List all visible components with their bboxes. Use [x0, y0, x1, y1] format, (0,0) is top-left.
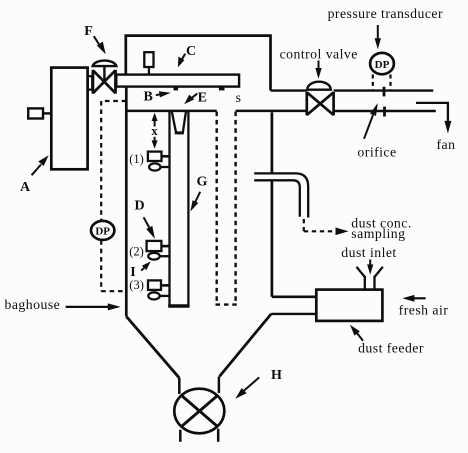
rotary valve H neck right: [218, 376, 221, 393]
valve F stem: [103, 66, 105, 82]
valve F dome: [93, 61, 117, 67]
arrow C: [182, 54, 186, 60]
tube sheet right segment to control valve: [236, 110, 307, 113]
svg-text:D: D: [134, 199, 144, 214]
box A (air supply): [51, 68, 87, 170]
orifice tick upper: [383, 87, 386, 97]
svg-text:E: E: [198, 91, 207, 106]
valve outlet right: [217, 429, 220, 442]
venturi nozzle E inside bag top: [172, 112, 176, 132]
svg-text:G: G: [197, 175, 208, 190]
DP circle (baghouse): [91, 221, 114, 240]
valve outlet left: [179, 430, 182, 442]
dust inlet funnel: [357, 267, 383, 290]
svg-text:DP: DP: [95, 226, 110, 238]
svg-text:control valve: control valve: [280, 46, 358, 61]
upper pipe: control valve to open end: [334, 89, 434, 91]
upper pipe: duct to control valve: [271, 89, 307, 91]
baghouse left wall: [125, 87, 128, 317]
svg-text:F: F: [84, 24, 93, 39]
sampling bent tube white interior: [254, 173, 308, 217]
baghouse right wall: [271, 112, 274, 297]
arrow orifice: [364, 115, 373, 139]
small box on left of A: [28, 108, 43, 118]
tube sheet left segment: [125, 110, 217, 113]
DP circle (pressure transducer): [370, 53, 394, 74]
sensor stem: [148, 67, 150, 75]
rotary valve H neck left: [178, 378, 181, 394]
arrow I: [141, 268, 144, 271]
left DP dashed circuit: [101, 101, 126, 291]
rotary valve X: [182, 396, 218, 427]
bag G bottom: [168, 304, 189, 308]
svg-text:DP: DP: [375, 59, 390, 71]
x dimension arrow lower: [154, 137, 156, 144]
probe 3 ellipse: [148, 292, 159, 299]
tap mark s on pipe bottom: [219, 87, 225, 91]
rotary valve H circle: [174, 389, 224, 434]
arrow E: [192, 94, 198, 98]
lower pipe: control valve to open end: [334, 110, 436, 112]
pipe from valve F (horizontal bar): [116, 75, 239, 87]
arrow B: [156, 93, 160, 96]
feeder upper pipe: [272, 295, 316, 298]
svg-text:(1): (1): [129, 152, 144, 166]
bag G right wall: [187, 111, 189, 306]
stem small box to A: [43, 112, 51, 114]
svg-text:pressure transducer: pressure transducer: [328, 6, 443, 21]
control valve dome: [307, 82, 331, 90]
top duct (clean gas duct): [126, 36, 271, 91]
x dimension arrow upper: [154, 117, 156, 127]
arrow control valve: [318, 61, 320, 71]
arrow H: [244, 377, 259, 390]
probe 1 box: [148, 152, 162, 161]
sensor C box on pipe: [144, 52, 153, 67]
svg-text:dust feeder: dust feeder: [358, 340, 424, 355]
svg-text:fresh air: fresh air: [399, 303, 449, 318]
svg-text:(3): (3): [129, 278, 144, 292]
svg-text:baghouse: baghouse: [5, 297, 61, 312]
cone left: [126, 316, 179, 378]
svg-text:s: s: [236, 90, 242, 105]
dashed arrow to dust conc. sampling: [304, 219, 336, 231]
svg-text:H: H: [271, 368, 282, 383]
svg-text:(2): (2): [129, 244, 144, 258]
probe 2 ellipse: [148, 253, 159, 260]
svg-text:sampling: sampling: [351, 226, 405, 241]
svg-text:A: A: [20, 180, 31, 195]
arrow dust inlet: [369, 260, 371, 267]
arrow dust feeder: [357, 333, 364, 341]
fan arrowhead: [444, 121, 451, 134]
svg-text:fan: fan: [437, 137, 456, 152]
DP transducer dashed leads: [373, 75, 391, 91]
dust feeder box: [316, 290, 382, 321]
sampling bent tube inner edge: [254, 180, 300, 217]
probe 1 ellipse: [149, 163, 160, 170]
cone right: [220, 314, 272, 377]
arrow D: [144, 217, 150, 227]
arrow fresh air: [413, 297, 426, 299]
arrow baghouse: [66, 306, 109, 308]
fan suction line: [416, 103, 448, 124]
arrow pressure transducer: [377, 25, 379, 40]
dashed sampling tube s (U shape): [216, 112, 237, 305]
svg-text:dust inlet: dust inlet: [341, 245, 396, 260]
orifice tick lower: [383, 107, 386, 117]
tap mark B on pipe bottom: [174, 87, 179, 91]
flange between A and valve F: [88, 76, 93, 89]
arrow F: [94, 36, 101, 46]
svg-text:x: x: [151, 124, 158, 138]
probe 3 box: [148, 280, 161, 290]
control valve body: [307, 92, 334, 116]
bag G left wall: [168, 111, 170, 306]
sampling bent tube outer edge: [254, 173, 308, 217]
svg-text:C: C: [186, 44, 196, 59]
arrow A: [32, 165, 41, 176]
feeder lower pipe: [271, 313, 316, 315]
svg-text:orifice: orifice: [357, 145, 396, 160]
probe 2 box: [147, 241, 162, 251]
valve F body: [93, 70, 116, 94]
arrow G: [195, 192, 200, 203]
svg-text:B: B: [144, 90, 153, 105]
